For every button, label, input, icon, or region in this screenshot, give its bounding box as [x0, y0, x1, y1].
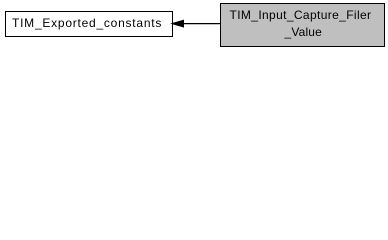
arrowhead — [172, 21, 184, 28]
edge arrow — [169, 18, 222, 30]
label TIM_Input_Capture_Filer — [230, 9, 372, 21]
label TIM_Exported_constants — [12, 17, 162, 29]
label _Value — [285, 26, 323, 38]
wire — [183, 23, 220, 25]
node TIM_Input_Capture_Filer_Value (gray box, current) — [220, 3, 385, 47]
node TIM_Exported_constants (white box) — [5, 11, 173, 37]
